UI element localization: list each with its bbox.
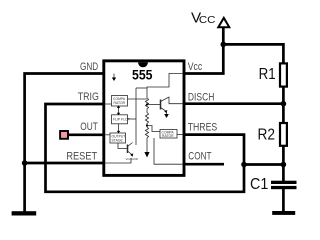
- svg-text:STAGE: STAGE: [112, 139, 124, 143]
- node VCC branch: [221, 42, 227, 48]
- svg-text:CC: CC: [199, 15, 216, 26]
- terminal OUT square: [60, 131, 68, 139]
- internal wire TRIG entry: [105, 103, 111, 105]
- svg-text:555: 555: [132, 68, 153, 83]
- transistor Q2 output: [127, 145, 129, 154]
- wire C1 to ground: [282, 189, 285, 212]
- internal ground arrow at discharge: [166, 112, 168, 115]
- internal wire RESET entry: [105, 158, 131, 163]
- internal wire comparator B to chain tap: [147, 126, 160, 132]
- svg-text:OUT: OUT: [80, 121, 98, 133]
- wire TRIG loop to THRES node: [46, 104, 245, 192]
- wire node to C1: [282, 165, 285, 182]
- svg-text:THRES: THRES: [188, 121, 218, 133]
- wire VCC to R1: [223, 44, 283, 63]
- svg-text:C1: C1: [250, 176, 268, 193]
- node RESET/GND junction: [22, 160, 28, 166]
- internal ground arrow at GND pin: [113, 74, 115, 78]
- internal wire OUT entry: [105, 134, 110, 136]
- wire DISCH node to R2: [282, 104, 285, 123]
- notch: [138, 62, 148, 67]
- internal wire CONT up: [154, 138, 183, 164]
- resistor R2: [280, 123, 287, 146]
- power VCC symbol: [218, 18, 229, 27]
- internal ground arrow below chain: [144, 152, 149, 158]
- wire CONT stub: [184, 163, 224, 166]
- svg-text:Vcc: Vcc: [188, 61, 203, 73]
- node TRIG/THRES junction: [241, 162, 247, 168]
- internal output stage box: [110, 133, 126, 143]
- transistor Q1 discharge: [160, 100, 162, 110]
- internal comparator A box: [112, 96, 128, 107]
- internal Vcc feed step: [147, 74, 183, 99]
- svg-text:RESET: RESET: [66, 150, 97, 162]
- capacitor C1 plate: [271, 181, 297, 184]
- svg-text:R1: R1: [259, 66, 276, 83]
- internal divider resistor chain: [145, 98, 148, 152]
- wire RESET: [25, 162, 104, 165]
- svg-text:R2: R2: [258, 127, 276, 144]
- svg-text:Vcc GND: Vcc GND: [126, 157, 139, 161]
- wire R2 to node: [282, 146, 285, 165]
- wire OUT: [66, 133, 104, 136]
- resistor R1: [280, 63, 287, 86]
- wire Vcc pin up to VCC: [184, 27, 223, 74]
- internal flip flop box: [112, 115, 128, 124]
- ground right: [272, 211, 295, 215]
- node R1/R2/DISCH junction: [281, 101, 287, 107]
- svg-text:GND: GND: [80, 61, 98, 73]
- wire GND pin to left rail: [25, 74, 104, 213]
- wire DISCH: [184, 102, 283, 105]
- ground left: [12, 211, 37, 215]
- internal wire THRES to comparator B: [177, 134, 183, 136]
- wire THRES: [184, 135, 244, 165]
- IC U1 555 body: [104, 61, 184, 176]
- svg-text:CONT: CONT: [188, 150, 211, 162]
- node R2/C1 junction: [281, 162, 287, 168]
- wire R1 to DISCH node: [282, 87, 285, 104]
- svg-text:RATOR: RATOR: [162, 134, 174, 138]
- internal long vertical wire: [135, 88, 137, 145]
- svg-text:TRIG: TRIG: [78, 91, 99, 103]
- svg-text:DISCH: DISCH: [188, 92, 215, 104]
- capacitor C1 plate: [271, 186, 297, 189]
- svg-text:RATOR: RATOR: [114, 101, 126, 105]
- internal comparator B box: [160, 130, 177, 139]
- wire node to C1 node: [244, 163, 283, 166]
- internal arrows between boxes: [118, 106, 120, 115]
- svg-text:FLIP FLOP: FLIP FLOP: [113, 118, 131, 122]
